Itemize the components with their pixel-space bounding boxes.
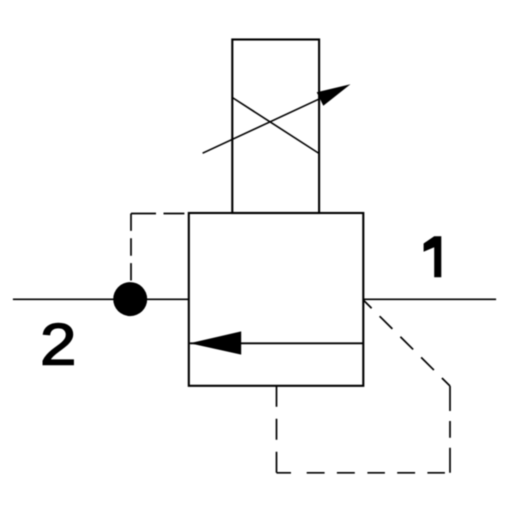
spring/adjustment box xyxy=(232,40,319,214)
valve body xyxy=(189,213,363,386)
port 1 wire (right) xyxy=(363,298,496,300)
flow arrow head xyxy=(190,331,242,354)
label 1 xyxy=(424,236,442,277)
junction node xyxy=(113,282,147,316)
pilot line vertical (dashed) xyxy=(130,214,132,299)
drain line right vertical (dashed) xyxy=(449,386,451,473)
drain line left vertical (dashed) xyxy=(276,386,278,473)
svg-text:2: 2 xyxy=(40,313,76,378)
flow arrow line xyxy=(190,342,364,344)
adjustment arrow head xyxy=(317,84,351,106)
cross line xyxy=(232,98,319,154)
port 2 wire (left) xyxy=(13,298,189,300)
drain line diagonal (dashed) xyxy=(364,301,450,387)
adjustment arrow shaft xyxy=(203,91,337,154)
drain line bottom horizontal (dashed) xyxy=(277,472,451,474)
pilot line horizontal (dashed) xyxy=(131,213,189,215)
